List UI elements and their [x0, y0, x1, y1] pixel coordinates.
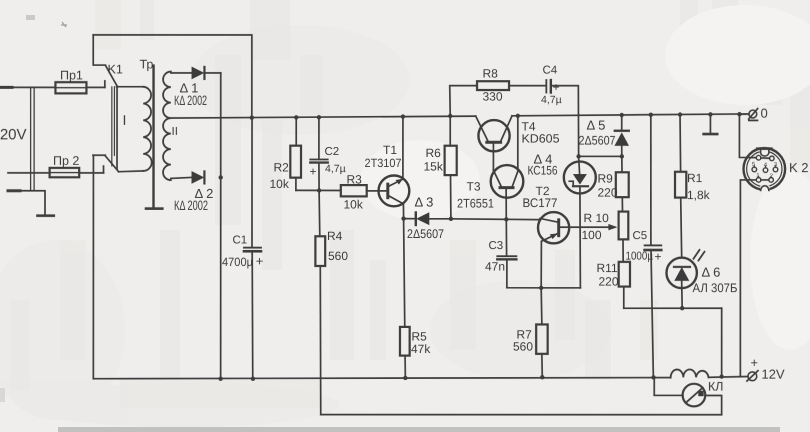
- relay contact KL (circle with lever): [654, 378, 721, 415]
- junction dot T1/D3/R5: [401, 216, 405, 220]
- svg-text:K1: K1: [108, 62, 123, 76]
- junction dot rectifier at bottom rail: [218, 377, 222, 381]
- svg-text:2Δ5607: 2Δ5607: [579, 133, 616, 147]
- svg-text:2Δ5607: 2Δ5607: [407, 227, 444, 241]
- svg-text:Δ 6: Δ 6: [701, 265, 720, 280]
- wire T2 emitter down: [540, 241, 542, 288]
- junction dot C1 top node: [250, 115, 254, 119]
- svg-text:R9: R9: [598, 171, 614, 185]
- junction dot T3 base crossing: [504, 217, 508, 221]
- svg-text:10k: 10k: [270, 177, 290, 191]
- wire rectifier junction vertical to bottom rail: [220, 73, 222, 379]
- K2 pin 2: [769, 178, 774, 183]
- junction dot K2 branch: [737, 112, 741, 116]
- svg-text:R3: R3: [347, 172, 363, 186]
- junction dot R2 top: [294, 115, 298, 119]
- svg-text:K 2: K 2: [789, 160, 809, 175]
- svg-text:10k: 10k: [344, 197, 364, 211]
- junction dot C5 bottom 12V rail: [651, 375, 655, 379]
- wire secondary top to diode D1: [171, 72, 192, 74]
- svg-text:C3: C3: [488, 240, 503, 252]
- junction dot T4 output: [516, 114, 520, 118]
- svg-text:C2: C2: [325, 146, 340, 158]
- svg-text:R1: R1: [687, 171, 703, 185]
- wire bottom return (R4 to KL): [321, 414, 722, 416]
- resistor R9: [616, 156, 629, 211]
- wire top loop from K1 to node at C1: [93, 35, 252, 118]
- resistor R5: [400, 219, 410, 378]
- bottom scan band: [58, 427, 780, 432]
- svg-text:C5: C5: [632, 230, 647, 242]
- fuse Pr1: [55, 82, 86, 93]
- svg-text:T1: T1: [383, 143, 397, 157]
- diode D1: [192, 67, 205, 80]
- resistor R1: [675, 115, 686, 258]
- transformer primary winding I: [117, 87, 152, 172]
- zener diode D4 KC156: [564, 156, 596, 288]
- wire branch down to 12V line: [721, 308, 723, 376]
- capacitor C1: [244, 118, 261, 379]
- wire center-tap rail (0V) left part: [171, 116, 476, 118]
- wire D4 bottom to emitter node: [541, 287, 580, 289]
- terminal +12V: [747, 371, 758, 381]
- svg-text:КΔ 2002: КΔ 2002: [174, 198, 208, 213]
- svg-text:+: +: [256, 253, 264, 268]
- svg-text:Δ 3: Δ 3: [415, 194, 434, 209]
- svg-text:T3: T3: [467, 179, 481, 193]
- svg-text:R4: R4: [327, 229, 343, 243]
- transistor T1: [379, 175, 410, 206]
- svg-text:R8: R8: [483, 67, 499, 81]
- svg-text:0: 0: [761, 106, 768, 121]
- svg-text:КС156: КС156: [528, 163, 558, 177]
- wire rail right of T4: [512, 114, 748, 116]
- transistor T4 (series regulator): [476, 116, 512, 152]
- junction dot rail ground: [708, 112, 712, 116]
- junction dot zener node left: [576, 154, 580, 158]
- svg-text:100: 100: [581, 228, 601, 242]
- wire K2 bottom branch to 12V: [740, 180, 756, 377]
- svg-text:R 10: R 10: [583, 211, 609, 225]
- switch K1 mechanical link: [112, 87, 115, 166]
- capacitor C4: [546, 80, 551, 93]
- terminal 0: [749, 109, 758, 121]
- junction dot R5 bottom rail: [403, 376, 407, 380]
- resistor R3: [341, 185, 379, 196]
- svg-text:47k: 47k: [411, 342, 431, 356]
- transistor T2: [538, 212, 617, 243]
- svg-text:4700µ: 4700µ: [222, 255, 253, 269]
- svg-text:Тр: Тр: [140, 58, 154, 72]
- wire secondary bottom to diode D2: [171, 177, 192, 178]
- svg-text:Пр 2: Пр 2: [53, 154, 79, 168]
- wire T4 base down to T3: [492, 144, 494, 170]
- junction dot T1 collector rail: [401, 114, 405, 118]
- ground (0V rail): [704, 114, 718, 134]
- wire T4 output down to T3 collector: [517, 116, 519, 172]
- wire R2/C2 bottom node to R3: [296, 189, 341, 191]
- svg-text:220: 220: [598, 186, 618, 200]
- wire D1 cathode to junction line: [204, 72, 220, 74]
- wire coil to 12V terminal: [709, 376, 748, 379]
- K2 pin 3: [773, 167, 778, 172]
- wire rail node up to R8: [450, 86, 477, 116]
- junction dot LED line: [680, 306, 684, 310]
- capacitor C5: [645, 115, 662, 377]
- svg-text:+: +: [553, 80, 560, 94]
- svg-text:C1: C1: [232, 234, 247, 246]
- resistor R11: [619, 262, 630, 308]
- transformer Tr core: [152, 66, 154, 208]
- svg-text:C4: C4: [543, 65, 558, 77]
- diode D2: [192, 171, 205, 184]
- junction dot R6/R8 rail: [448, 114, 452, 118]
- K2 pin (top-right): [770, 156, 775, 161]
- wire C4 right and down to zener node: [551, 86, 579, 157]
- wire K1 pole2 down to bottom rail: [92, 156, 94, 379]
- transistor T3: [491, 165, 524, 219]
- svg-text:560: 560: [513, 340, 533, 354]
- ground transformer core: [146, 207, 162, 210]
- svg-text:47n: 47n: [485, 259, 505, 273]
- K2 pin 1: [756, 178, 761, 183]
- wire T1 collector to rail: [402, 117, 404, 180]
- svg-text:+: +: [750, 355, 758, 370]
- LED D6: [666, 250, 704, 308]
- svg-text:4,7µ: 4,7µ: [541, 94, 562, 106]
- resistor R4: [315, 190, 325, 414]
- wire R8 to C4: [509, 85, 546, 87]
- junction dot D5 top rail: [620, 113, 624, 117]
- bottom rail (+ raw): [93, 377, 670, 379]
- trimmer R10: [619, 212, 629, 262]
- svg-text:АЛ 307Б: АЛ 307Б: [692, 281, 737, 295]
- junction dot C2 top: [317, 115, 321, 119]
- wire fuse1 to switch contact: [86, 81, 104, 88]
- svg-text:КЛ: КЛ: [708, 380, 724, 394]
- svg-text:220: 220: [598, 274, 618, 288]
- svg-text:2Т6551: 2Т6551: [457, 196, 494, 210]
- svg-text:KD605: KD605: [522, 131, 560, 145]
- junction dot at 12V line: [719, 374, 723, 378]
- junction dot base node: [317, 188, 321, 192]
- ground (mains earth): [38, 214, 54, 217]
- svg-text:2Т3107: 2Т3107: [365, 156, 402, 170]
- resistor R7: [536, 288, 548, 377]
- svg-text:12V: 12V: [761, 367, 784, 382]
- switch K1 pole 2 (bottom): [93, 155, 119, 172]
- junction dot zener node right: [620, 154, 624, 158]
- K2 pin 4: [763, 168, 768, 173]
- junction dot R1 top rail: [678, 112, 682, 116]
- svg-text:560: 560: [328, 249, 348, 263]
- svg-text:1000µ: 1000µ: [625, 251, 653, 263]
- fuse Pr2: [50, 168, 80, 177]
- svg-text:1,8k: 1,8k: [687, 188, 711, 202]
- svg-text:I: I: [123, 112, 127, 128]
- wire top pins link: [761, 157, 770, 159]
- K2 pin (top-left): [756, 155, 761, 160]
- transformer secondary winding II: [163, 72, 171, 181]
- relay coil KL (in +12V line): [671, 369, 709, 377]
- wire fuse2 to switch contact: [79, 166, 103, 173]
- svg-text:+: +: [310, 165, 317, 179]
- capacitor C2: [310, 117, 327, 190]
- wire T1 emitter down: [402, 204, 404, 219]
- svg-text:4,7µ: 4,7µ: [325, 163, 346, 175]
- wire bottom pins link: [761, 179, 769, 181]
- junction dot D2-cathode: [219, 175, 223, 179]
- wire mains input line 2 (220V neutral): [8, 172, 50, 174]
- svg-text:330: 330: [483, 90, 503, 104]
- svg-text:Δ 5: Δ 5: [587, 117, 606, 132]
- svg-text:R6: R6: [426, 146, 442, 160]
- resistor R8: [477, 81, 509, 90]
- connector K2: [744, 148, 786, 192]
- svg-text:R2: R2: [274, 160, 290, 174]
- junction dot C5 top rail: [649, 113, 653, 117]
- svg-text:+: +: [654, 249, 661, 263]
- diode D3: [404, 212, 451, 225]
- junction dot R7 bottom rail: [540, 375, 544, 379]
- svg-text:Пр1: Пр1: [60, 69, 83, 83]
- wire zener node horizontal: [579, 155, 622, 157]
- svg-text:15k: 15k: [424, 159, 444, 173]
- svg-text:220V: 220V: [0, 126, 27, 143]
- wire K2 top branch: [739, 114, 756, 157]
- junction dot emitter node y288: [539, 286, 543, 290]
- wire mains input line 1 (220V live): [1, 86, 55, 88]
- resistor R6: [445, 116, 457, 219]
- resistor R2: [290, 117, 301, 190]
- svg-text:II: II: [172, 126, 178, 138]
- junction dot R6 bottom: [449, 217, 453, 221]
- svg-text:R11: R11: [596, 261, 617, 275]
- wire mains cord double line to earth: [8, 87, 45, 215]
- K2 pin 5: [752, 167, 757, 172]
- junction dot C1 bottom rail: [251, 377, 255, 381]
- diode D5: [614, 115, 629, 156]
- capacitor C3: [497, 219, 541, 288]
- svg-text:ВС177: ВС177: [523, 196, 558, 210]
- wire rail to terminal 0: [739, 113, 749, 115]
- wire R11 bottom to +12V branch: [624, 307, 722, 309]
- wire D3 line to T3 base and T2: [451, 218, 539, 221]
- switch K1 pole 1 (top): [93, 35, 117, 87]
- svg-text:КΔ 2002: КΔ 2002: [174, 93, 207, 108]
